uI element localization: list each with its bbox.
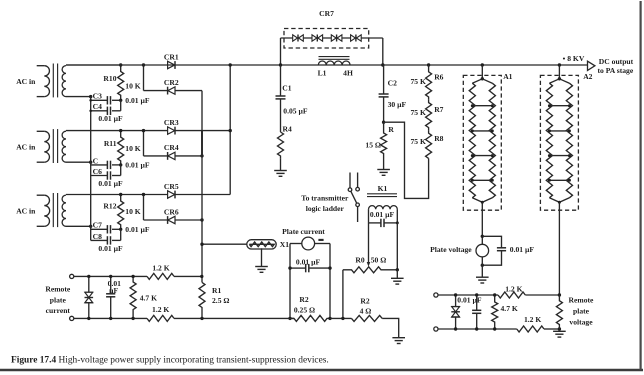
wire T1 secondary bottom lead: [66, 96, 91, 98]
transformer T3 secondary winding: [62, 195, 66, 226]
enclosure CR7 dashed box: [284, 29, 369, 49]
wire R to ground: [383, 156, 385, 170]
node left 4.7K top: [131, 275, 134, 278]
svg-text:C7: C7: [93, 221, 102, 230]
svg-text:R10: R10: [103, 74, 116, 83]
enclosure A2 dashed box: [540, 75, 578, 210]
ground (X1): [255, 266, 268, 268]
resistor R12 10 K: [118, 195, 124, 230]
svg-text:4.7 K: 4.7 K: [140, 293, 157, 302]
svg-text:C6: C6: [93, 167, 102, 176]
node R0 right junction: [396, 268, 399, 271]
node left cap top: [109, 275, 112, 278]
node remote row negbus junction: [200, 275, 203, 278]
wire T2 secondary top lead: [66, 130, 230, 132]
svg-text:4H: 4H: [343, 68, 353, 77]
svg-text:1.2 K: 1.2 K: [152, 263, 169, 272]
node right 4.7K bottom: [493, 327, 496, 330]
svg-text:0.01 µF: 0.01 µF: [98, 244, 123, 253]
inductor L1 winding: [318, 61, 350, 65]
terminal remote voltage top: [434, 293, 438, 297]
zener pair (right TVS): [455, 295, 457, 307]
transformer T1 core: [52, 64, 54, 98]
transformer T2 secondary winding: [62, 131, 66, 162]
wire A2 top split diagonals: [549, 79, 569, 83]
zener pair (left TVS): [88, 276, 90, 292]
label minus (meter): [318, 239, 323, 241]
wire remote top row seg2: [174, 275, 202, 277]
node A2 split: [558, 77, 561, 80]
diode pair CR7-4: [351, 35, 356, 41]
wire neutral bus (secondary commons): [90, 97, 92, 241]
terminal remote current bottom: [70, 316, 74, 320]
node right cap bottom: [475, 327, 478, 330]
svg-text:30 µF: 30 µF: [388, 100, 407, 109]
svg-text:To transmitter: To transmitter: [301, 194, 349, 203]
wire A2 rung y=180.3: [549, 179, 569, 181]
svg-text:1.2 K: 1.2 K: [152, 305, 169, 314]
svg-text:75 K: 75 K: [410, 137, 425, 146]
node CR4-negbus junction: [200, 154, 203, 157]
wire remote top row seg1: [74, 275, 147, 277]
node T1 secondary bottom junction: [89, 95, 92, 98]
svg-text:A1: A1: [503, 72, 512, 81]
svg-text:R11: R11: [104, 139, 117, 148]
wire R0 left drop: [342, 270, 344, 319]
node CR1/CR2 branch (143.5,65): [142, 63, 145, 66]
node R10 top junction: [119, 63, 122, 66]
terminal remote voltage bottom: [434, 327, 438, 331]
svg-text:R4: R4: [283, 125, 292, 134]
diode CR5: [168, 191, 175, 198]
wire CR7 diode row: [281, 37, 383, 39]
capacitor meter bypass 0.01 uF: [290, 267, 306, 269]
wire A1 bottom split diagonals: [472, 198, 492, 203]
node R2 0.25 left: [288, 317, 291, 320]
wire A2 rung y=130.9: [549, 130, 569, 132]
svg-text:plate: plate: [50, 295, 67, 304]
resistor R2 4 ohm: [352, 315, 383, 321]
svg-text:CR3: CR3: [164, 118, 179, 127]
svg-text:R6: R6: [434, 72, 443, 81]
wire T3 secondary bottom lead: [66, 225, 91, 227]
wire meter top left: [290, 243, 302, 245]
node left cap bottom: [109, 317, 112, 320]
wire CR6 branch vertical: [143, 195, 145, 221]
svg-text:CR5: CR5: [164, 182, 179, 191]
node R6 chain top junction: [427, 63, 430, 66]
arrow K1 wiper onto R0: [367, 262, 371, 267]
transformer T1 secondary winding: [62, 66, 66, 97]
wire A2 rung y=155.6: [549, 155, 569, 157]
wire CR4 row: [144, 155, 203, 157]
ground (plate voltage meter): [476, 276, 489, 278]
wire K1 right lead: [396, 223, 398, 270]
wire A1 rung y=130.9: [472, 130, 492, 132]
capacitor K1 bypass 0.01 uF: [369, 222, 381, 224]
svg-text:CR6: CR6: [164, 207, 179, 216]
contact switch lower: [356, 203, 360, 207]
node neutral-C3 tap: [89, 99, 92, 102]
svg-text:L1: L1: [318, 68, 327, 77]
svg-text:0.01 µF: 0.01 µF: [457, 295, 482, 304]
node rail R1 junction: [200, 317, 203, 320]
svg-text:75 K: 75 K: [410, 108, 425, 117]
capacitor C2 30 uF: [383, 65, 385, 94]
wire C2-R8 bypass path: [384, 122, 429, 198]
wire negative bus thick segment: [201, 131, 203, 156]
node R11 top junction: [119, 129, 122, 132]
transformer T2 primary winding: [37, 130, 45, 132]
capacitor C4 0.01 uF row: [91, 110, 108, 112]
svg-text:K1: K1: [378, 184, 388, 193]
ground (R4): [274, 170, 287, 172]
wire T1 secondary top lead: [66, 64, 121, 66]
svg-text:logic ladder: logic ladder: [306, 204, 345, 213]
wire A1 rung y=180.3: [472, 179, 492, 181]
wire A1 stem to meter: [481, 202, 483, 244]
svg-text:R: R: [388, 125, 394, 134]
capacitor C6 0.01 uF row: [91, 175, 108, 177]
svg-text:0.25 Ω: 0.25 Ω: [294, 305, 315, 314]
node right 4.7K top: [493, 293, 496, 296]
svg-text:1.2 K: 1.2 K: [524, 315, 541, 324]
wire A1 rung y=155.6: [472, 155, 492, 157]
resistor chain A1 right: [489, 83, 495, 198]
capacitor plate-voltage 0.01 uF loop: [482, 236, 501, 248]
switch blade: [351, 191, 357, 203]
diode pair CR7-1: [293, 35, 298, 41]
node C7 right junction: [119, 228, 122, 231]
capacitor C 0.01 uF row: [91, 164, 108, 166]
wire negative bus vertical x=202: [201, 91, 203, 283]
resistor R 15 ohm: [381, 122, 387, 155]
svg-text:15 Ω: 15 Ω: [365, 140, 381, 149]
wire CR7 right riser: [382, 38, 384, 65]
wire A1 top stem: [481, 65, 483, 79]
svg-text:50 Ω: 50 Ω: [371, 256, 387, 265]
ground (remote plate voltage): [553, 330, 566, 332]
node zener left top: [87, 275, 90, 278]
resistor R0 50 ohm: [343, 267, 397, 273]
svg-text:0.05 µF: 0.05 µF: [283, 106, 308, 115]
svg-text:C2: C2: [388, 79, 397, 88]
resistor chain A2 left: [546, 83, 552, 198]
node rv bottom right junction: [558, 327, 561, 330]
svg-text:R2: R2: [299, 295, 308, 304]
svg-text:CR1: CR1: [164, 52, 179, 61]
svg-text:1.2 K: 1.2 K: [505, 284, 522, 293]
node A1 top stem junction: [481, 63, 484, 66]
capacitor C7 0.01 uF row: [91, 228, 108, 230]
svg-text:C3: C3: [93, 92, 102, 101]
node meter cap branch bottom: [481, 264, 484, 267]
svg-text:R12: R12: [103, 202, 116, 211]
page right edge: [639, 1, 641, 370]
node A1 split: [481, 77, 484, 80]
node meter cap branch top: [481, 235, 484, 238]
node rail R0-drop junction: [341, 317, 344, 320]
node A1 bottom merge: [481, 201, 484, 204]
node right cap top: [475, 293, 478, 296]
wire CR4 branch vertical: [143, 131, 145, 156]
diode CR1: [168, 61, 175, 68]
wire meter left vertical: [289, 244, 291, 319]
node rv top right junction: [558, 293, 561, 296]
transformer T3 primary winding: [37, 194, 45, 196]
wire meter right vertical: [329, 244, 331, 319]
resistor R7 75 K: [426, 100, 432, 131]
wire A1 top split diagonals: [472, 79, 492, 83]
wire T2 secondary bottom lead: [66, 161, 91, 163]
node A2 top stem junction: [558, 63, 561, 66]
wire T3 secondary top lead: [66, 194, 230, 196]
svg-text:A2: A2: [583, 72, 592, 81]
svg-text:plate: plate: [573, 306, 590, 315]
svg-text:C: C: [93, 156, 98, 165]
transformer T1 primary winding: [37, 65, 45, 67]
node right zener bottom: [454, 327, 457, 330]
wire bottom rail seg1: [74, 317, 147, 319]
node T2 secondary bottom junction: [89, 161, 92, 164]
ground (R0/K1): [391, 277, 404, 279]
node CR3/CR4 branch (143.5,130.6): [142, 129, 145, 132]
diode pair CR7-3: [331, 35, 336, 41]
resistor 4.7 K (left): [130, 276, 136, 318]
contact switch right: [356, 187, 360, 191]
svg-text:0.01 µF: 0.01 µF: [125, 96, 150, 105]
svg-text:0.01 µF: 0.01 µF: [98, 114, 123, 123]
wire bottom rail seg2: [174, 317, 294, 319]
node R2 0.25 right: [328, 317, 331, 320]
diode CR6: [168, 216, 175, 223]
wire A2 stem to row: [558, 202, 560, 295]
ground (R 15 ohm): [377, 169, 390, 171]
svg-text:voltage: voltage: [569, 317, 593, 326]
node neutral-C4 tap: [89, 110, 92, 113]
node CR3 output junction: [229, 129, 232, 132]
capacitor 0.01 uF (left): [110, 276, 112, 293]
node X1 branch junction: [200, 243, 203, 246]
surge suppressor X1 pill: [247, 240, 276, 249]
svg-text:75 K: 75 K: [410, 77, 425, 86]
terminal remote current top: [70, 274, 74, 278]
contact switch left: [348, 188, 352, 192]
wire CR2 row: [144, 90, 203, 92]
node zener left bottom: [87, 317, 90, 320]
capacitor C1 0.05 uF: [280, 65, 282, 96]
svg-text:C8: C8: [93, 232, 102, 241]
resistor remote-plate-voltage: [556, 295, 562, 329]
wire R4 to ground: [280, 158, 282, 170]
svg-text:4.7 K: 4.7 K: [501, 304, 518, 313]
diode CR3: [168, 127, 175, 134]
svg-text:AC in: AC in: [16, 77, 36, 86]
wire bottom rail end: [382, 318, 399, 337]
svg-text:R8: R8: [434, 134, 443, 143]
svg-text:Remote: Remote: [569, 296, 595, 305]
wire X1 branch: [202, 243, 247, 245]
wire switch right lead: [357, 173, 359, 188]
resistor chain A1 left: [469, 83, 475, 198]
arrow DC output: [588, 61, 595, 70]
wire A2 bottom split diagonals: [549, 198, 569, 203]
wire rv bottom row seg1: [438, 328, 517, 330]
svg-text:to PA stage: to PA stage: [598, 66, 634, 75]
meter M2 plate voltage: [476, 244, 489, 257]
node meter cap right: [328, 266, 331, 269]
resistor R8 75 K: [426, 130, 432, 158]
diode CR2: [168, 87, 175, 94]
svg-text:0.01 µF: 0.01 µF: [370, 210, 395, 219]
svg-text:CR2: CR2: [164, 78, 179, 87]
diode pair CR7-2: [312, 35, 317, 41]
svg-text:Plate voltage: Plate voltage: [430, 245, 472, 254]
resistor 1.2 K (top right): [498, 292, 525, 298]
wire CR7 left riser: [280, 38, 282, 65]
resistor R6 75 K: [426, 65, 432, 100]
svg-text:Figure 17.4 High-voltage power: Figure 17.4 High-voltage power supply in…: [11, 355, 329, 365]
svg-text:AC in: AC in: [16, 143, 36, 152]
relay K1 core lines: [367, 193, 397, 195]
wire X1 to ground: [261, 248, 263, 266]
wire A2 rung y=105.7: [549, 105, 569, 107]
node CR5/CR6 branch (143.5,194.5): [142, 193, 145, 196]
node C3 right junction: [119, 99, 122, 102]
wire meter to ground: [481, 257, 483, 277]
wire switch left lead: [349, 173, 351, 188]
resistor 1.2 K (bottom right): [517, 326, 544, 332]
svg-text:CR7: CR7: [319, 9, 334, 18]
wire K1 wiper lead: [368, 223, 370, 263]
node A2 bottom merge: [558, 201, 561, 204]
resistor 4.7 K (right): [492, 295, 498, 329]
svg-text:R2: R2: [360, 296, 369, 305]
wire CR2 branch vertical: [143, 65, 145, 91]
svg-text:Remote: Remote: [45, 284, 71, 293]
wire meter top right: [315, 243, 330, 245]
diode CR4: [168, 152, 175, 159]
wire main positive bus (top): [66, 64, 588, 66]
wire A2 top stem: [558, 65, 560, 79]
wire A1 rung y=105.7: [472, 105, 492, 107]
svg-text:X1: X1: [280, 240, 289, 249]
page bottom edge: [0, 369, 643, 371]
node C2-R junction: [382, 121, 385, 124]
svg-text:0.01 µF: 0.01 µF: [510, 245, 535, 254]
svg-text:4 Ω: 4 Ω: [360, 306, 372, 315]
svg-text:10 K: 10 K: [125, 207, 140, 216]
node CR7 right junction: [381, 63, 384, 66]
svg-text:C4: C4: [93, 102, 102, 111]
node meter cap left: [288, 266, 291, 269]
relay K1 coil: [369, 206, 398, 210]
svg-text:• 8 KV: • 8 KV: [563, 54, 585, 63]
svg-text:Plate current: Plate current: [282, 227, 325, 236]
svg-text:R7: R7: [434, 105, 443, 114]
node R12 top junction: [119, 193, 122, 196]
svg-text:C1: C1: [282, 84, 291, 93]
node pos-collector top: [229, 63, 232, 66]
svg-text:0.01 µF: 0.01 µF: [98, 179, 123, 188]
resistor R2 0.25 ohm: [290, 315, 330, 321]
resistor R1 2.5 ohm: [199, 282, 205, 318]
capacitor C8 0.01 uF row: [91, 239, 108, 241]
ground (bottom rail): [392, 337, 405, 339]
svg-text:10 K: 10 K: [125, 144, 140, 153]
node CR7 left junction: [279, 63, 282, 66]
svg-text:0.01 µF: 0.01 µF: [125, 225, 150, 234]
inductor L1 core lines: [319, 56, 350, 58]
resistor 1.2 K (bottom left): [147, 315, 174, 321]
resistor R4: [278, 132, 284, 158]
resistor chain A2 right: [566, 83, 572, 198]
svg-text:current: current: [46, 306, 71, 315]
svg-text:AC in: AC in: [16, 207, 36, 216]
node K1 cap right: [396, 221, 399, 224]
svg-text:R0: R0: [355, 256, 364, 265]
wire rv top row seg1: [438, 294, 498, 296]
svg-text:CR4: CR4: [164, 143, 179, 152]
wire CR6 row: [144, 219, 203, 221]
wire rv bottom row seg2: [544, 328, 559, 330]
node T3 secondary bottom junction: [89, 225, 92, 228]
transformer T2 core: [52, 129, 54, 163]
svg-text:0.01 µF: 0.01 µF: [125, 161, 150, 170]
node right zener top: [454, 293, 457, 296]
node C right junction: [119, 163, 122, 166]
svg-text:10 K: 10 K: [125, 82, 140, 91]
transformer T3 core: [52, 193, 54, 227]
node CR6-negbus junction: [200, 218, 203, 221]
resistor 1.2 K (top left): [147, 273, 174, 279]
svg-text:R1: R1: [212, 286, 221, 295]
wire rv top row seg2: [525, 294, 559, 296]
svg-text:2.5 Ω: 2.5 Ω: [212, 296, 229, 305]
enclosure A1 dashed box: [463, 75, 501, 210]
wire switch lower lead: [357, 207, 359, 222]
wire R0 right to ground: [396, 270, 398, 279]
meter M1 plate current: [302, 237, 315, 250]
capacitor C3 0.01 uF row: [91, 99, 108, 101]
node left 4.7K bottom: [131, 317, 134, 320]
wire positive-bus collector vertical x=230: [229, 65, 231, 195]
resistor R11 10 K: [118, 131, 124, 165]
svg-text:DC output: DC output: [599, 57, 634, 66]
wire bottom rail seg3: [330, 317, 352, 319]
capacitor 0.01 uF (right): [476, 295, 478, 310]
resistor R10 10 K: [118, 65, 124, 100]
